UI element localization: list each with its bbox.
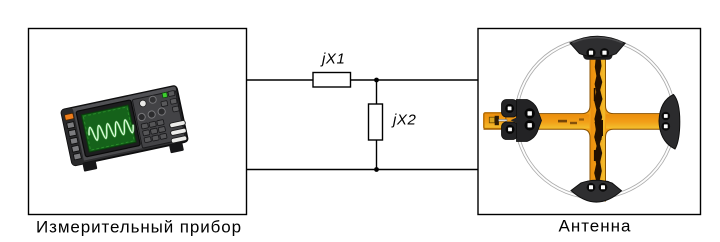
node A (top junction) xyxy=(374,78,379,83)
svg-text:jX2: jX2 xyxy=(391,112,417,129)
scope dark knobs row xyxy=(137,107,166,121)
scope screen dashed frame xyxy=(83,107,134,150)
scope front face xyxy=(73,91,186,161)
wire from node A down to jX2 xyxy=(376,80,378,104)
svg-text:jX1: jX1 xyxy=(320,51,345,68)
antenna clamp top xyxy=(570,36,625,60)
antenna clamp left xyxy=(502,100,542,142)
left block: instrument box xyxy=(29,29,247,215)
scope tick knob xyxy=(149,96,157,104)
scope screen bezel xyxy=(76,100,140,157)
scope orange button xyxy=(64,113,73,120)
antenna clamp right xyxy=(659,95,680,150)
scope small top buttons xyxy=(159,90,179,114)
wire from jX2 down to node B xyxy=(376,140,378,170)
scope top band xyxy=(62,86,176,115)
antenna loop ring xyxy=(516,39,675,198)
antenna feed stub xyxy=(484,113,507,129)
oscilloscope U1 (measuring instrument) xyxy=(61,85,191,173)
scope screen xyxy=(81,105,136,152)
scope foot right xyxy=(169,142,184,153)
wire bottom (instrument to antenna) xyxy=(247,169,479,171)
antenna cross (feed bars) xyxy=(484,57,664,201)
wire top-left (instrument to jX1) xyxy=(247,79,314,81)
wire top-right (jX1 to antenna) xyxy=(351,79,479,81)
antenna heater stripe xyxy=(594,58,602,200)
scope sine trace xyxy=(88,119,135,142)
scope button grid xyxy=(141,120,167,143)
scope body xyxy=(61,86,188,166)
resistor jX2 xyxy=(369,104,383,140)
node B (bottom junction) xyxy=(374,167,379,172)
svg-text:Антенна: Антенна xyxy=(558,217,631,236)
svg-text:Измерительный прибор: Измерительный прибор xyxy=(36,218,242,237)
resistor jX1 xyxy=(313,73,351,88)
scope green led xyxy=(162,92,167,98)
scope white bars xyxy=(168,120,189,143)
right block: antenna box xyxy=(478,29,701,215)
scope left buttons xyxy=(67,122,82,160)
scope foot left xyxy=(82,160,97,171)
scope white knob xyxy=(139,100,147,108)
scope right panel xyxy=(132,91,185,149)
antenna clamp bottom xyxy=(571,180,622,202)
scope left strip xyxy=(61,108,85,166)
